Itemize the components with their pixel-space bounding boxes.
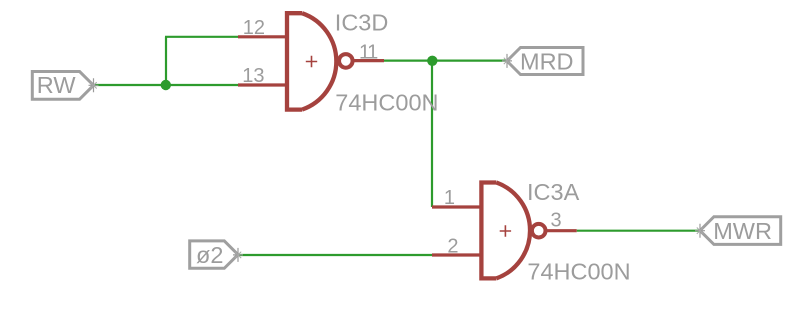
svg-text:3: 3 bbox=[551, 209, 562, 231]
svg-text:1: 1 bbox=[444, 187, 455, 209]
IC3D pin 12 stub bbox=[238, 35, 287, 38]
svg-text:IC3D: IC3D bbox=[335, 9, 389, 35]
label flag MWR bbox=[700, 217, 781, 245]
wire end cross at RW bbox=[89, 78, 99, 92]
label flag MRD bbox=[507, 48, 583, 75]
svg-text:RW: RW bbox=[37, 72, 77, 98]
svg-text:74HC00N: 74HC00N bbox=[335, 89, 438, 115]
IC3A pin 3 output stub bbox=[547, 229, 577, 232]
svg-text:74HC00N: 74HC00N bbox=[527, 258, 630, 284]
svg-text:MRD: MRD bbox=[520, 49, 574, 75]
svg-text:ø2: ø2 bbox=[196, 242, 223, 268]
svg-text:11: 11 bbox=[359, 42, 378, 64]
net ø2 wire horizontal segment bbox=[237, 254, 433, 256]
IC3A origin cross bbox=[500, 225, 511, 236]
net RW wire horizontal segment bbox=[92, 84, 239, 86]
junction on net MRD bbox=[427, 56, 437, 66]
net RW wire top horizontal segment to pin 12 bbox=[165, 36, 239, 38]
label flag ø2 bbox=[190, 241, 238, 268]
junction on net RW bbox=[161, 80, 171, 90]
svg-text:IC3A: IC3A bbox=[527, 179, 580, 205]
svg-text:MWR: MWR bbox=[713, 218, 772, 244]
net RW wire vertical branch segment bbox=[165, 37, 167, 85]
label flag RW bbox=[32, 72, 93, 100]
svg-text:12: 12 bbox=[243, 17, 265, 39]
net MRD wire vertical segment down to pin 1 bbox=[431, 61, 433, 207]
IC3A inversion bubble bbox=[532, 224, 546, 238]
IC3A pin 1 stub bbox=[432, 205, 481, 208]
IC3D pin 11 output stub bbox=[354, 59, 384, 62]
nand gate IC3D body bbox=[287, 13, 353, 109]
wire end cross at MRD bbox=[502, 54, 512, 68]
svg-text:13: 13 bbox=[242, 65, 264, 87]
wire end cross at ø2 bbox=[233, 248, 243, 262]
net MRD wire from gate output to label bbox=[383, 59, 506, 61]
net MWR wire horizontal segment bbox=[577, 230, 700, 232]
nand gate IC3A body bbox=[481, 183, 545, 279]
IC3D origin cross bbox=[306, 56, 317, 67]
IC3D pin 13 stub bbox=[238, 83, 287, 86]
wire end cross at MWR bbox=[695, 224, 705, 238]
svg-text:2: 2 bbox=[447, 235, 458, 257]
IC3A pin 2 stub bbox=[432, 253, 481, 256]
IC3D inversion bubble bbox=[339, 54, 353, 68]
